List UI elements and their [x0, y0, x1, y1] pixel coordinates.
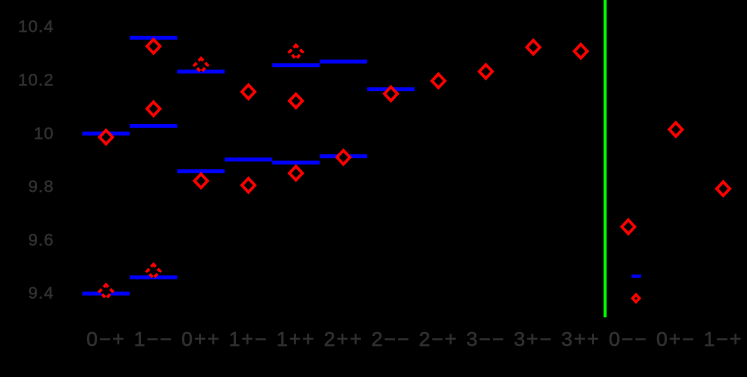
svg-text:3+−: 3+− [514, 329, 553, 351]
svg-text:2−−: 2−− [371, 329, 410, 351]
svg-text:0+−: 0+− [656, 329, 695, 351]
svg-text:2−+: 2−+ [419, 329, 458, 351]
svg-text:1+−: 1+− [229, 329, 268, 351]
svg-text:0−+: 0−+ [86, 329, 125, 351]
svg-text:3++: 3++ [561, 329, 600, 351]
svg-text:9.6: 9.6 [28, 230, 54, 249]
svg-text:3−−: 3−− [466, 329, 505, 351]
svg-text:0−−: 0−− [609, 329, 648, 351]
svg-text:10.2: 10.2 [18, 71, 54, 90]
svg-text:1−+: 1−+ [704, 329, 743, 351]
svg-text:2++: 2++ [324, 329, 363, 351]
svg-text:0++: 0++ [181, 329, 220, 351]
svg-text:9.4: 9.4 [28, 284, 54, 303]
svg-text:9.8: 9.8 [28, 177, 54, 196]
svg-text:10.4: 10.4 [18, 17, 54, 36]
svg-text:1++: 1++ [276, 329, 315, 351]
svg-text:1−−: 1−− [134, 329, 173, 351]
svg-text:10: 10 [34, 124, 54, 143]
